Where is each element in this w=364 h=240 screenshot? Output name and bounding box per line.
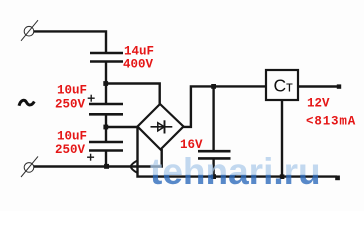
node D (+ rail to C4) bbox=[211, 84, 216, 89]
wire node B to bridge left corner bbox=[106, 126, 138, 128]
wire (C2 to C3) bbox=[105, 114, 107, 142]
arrowhead marker on bottom wire bbox=[131, 161, 138, 173]
node C (C3 to bottom wire junction) bbox=[104, 164, 109, 169]
svg-text:10uF: 10uF bbox=[57, 84, 87, 98]
capacitor C4 plates bbox=[198, 151, 231, 158]
capacitor C4 (filter) lead top bbox=[212, 86, 214, 150]
svg-text:<813mA: <813mA bbox=[306, 115, 356, 129]
capacitor C4 lead bottom bbox=[212, 158, 214, 176]
terminal dot 0V output bbox=[335, 176, 340, 181]
wire node A to bridge top bbox=[106, 84, 160, 105]
svg-text:250V: 250V bbox=[55, 143, 86, 157]
svg-text:14uF: 14uF bbox=[124, 45, 154, 59]
polarity plus C3 bbox=[87, 154, 94, 161]
wire bottom (X2 to bridge bottom corner) bbox=[34, 165, 163, 167]
wire bridge left corner down to 0V rail bbox=[138, 127, 338, 177]
svg-text:16V: 16V bbox=[180, 138, 203, 152]
stabilizer U1 box Ct bbox=[266, 70, 298, 100]
diode symbol inside bridge bbox=[151, 120, 173, 133]
node F (U1 ground to rail) bbox=[280, 174, 285, 179]
wire (C3 to bottom rail) bbox=[105, 151, 107, 167]
wire bridge bottom corner to bottom wire bbox=[160, 149, 162, 168]
wire (C1 to C2) bbox=[105, 62, 107, 105]
polarity plus C2 bbox=[88, 95, 95, 102]
capacitor C2 10uF 250V bbox=[89, 104, 123, 114]
svg-text:250V: 250V bbox=[55, 97, 86, 111]
wire bridge right corner to + rail bbox=[184, 86, 267, 127]
wire U1 ground to 0V rail bbox=[281, 100, 283, 177]
node A (junction to bridge AC1) bbox=[103, 81, 108, 86]
terminal X2 (AC neutral input, bottom-left) bbox=[21, 156, 38, 177]
terminal X1 (AC line input, top-left) bbox=[21, 20, 38, 41]
capacitor C1 14uF 400V bbox=[90, 53, 123, 62]
AC source tilde symbol bbox=[19, 100, 34, 106]
node E (C4 to 0V rail) bbox=[211, 174, 216, 179]
svg-text:12V: 12V bbox=[307, 97, 330, 111]
wire U1 output 12V bbox=[298, 85, 337, 87]
wire top (X1 to C1 chain) bbox=[34, 31, 107, 52]
svg-text:10uF: 10uF bbox=[57, 130, 87, 144]
node B (junction to bridge AC2 left corner) bbox=[103, 125, 108, 130]
bridge rectifier VD1 diamond bbox=[138, 104, 184, 150]
terminal dot 12V output bbox=[337, 84, 341, 88]
svg-text:400V: 400V bbox=[123, 58, 154, 72]
capacitor C3 10uF 250V bbox=[89, 142, 123, 151]
